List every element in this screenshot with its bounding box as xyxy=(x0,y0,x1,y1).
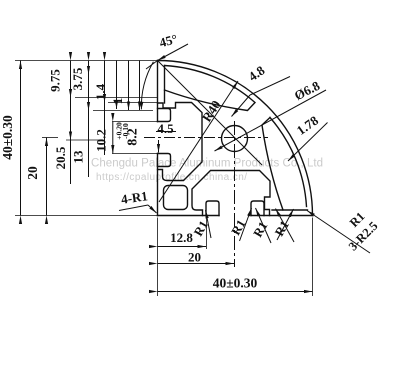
svg-text:13: 13 xyxy=(71,150,86,164)
svg-text:9.75: 9.75 xyxy=(48,69,63,92)
svg-text:https://cpaluprofile.cn.china.: https://cpaluprofile.cn.china.cn/ xyxy=(96,172,247,183)
svg-text:20: 20 xyxy=(188,250,201,265)
svg-text:10.2: 10.2 xyxy=(94,129,109,152)
svg-text:1: 1 xyxy=(110,98,125,105)
svg-text:-0.10: -0.10 xyxy=(121,123,130,139)
svg-text:1.4: 1.4 xyxy=(93,83,108,100)
svg-text:40±0.30: 40±0.30 xyxy=(213,276,258,291)
svg-text:3.75: 3.75 xyxy=(70,67,85,90)
svg-text:4.5: 4.5 xyxy=(157,121,174,136)
svg-text:20: 20 xyxy=(25,166,40,180)
svg-text:Chengdu Palace Aluminum Produc: Chengdu Palace Aluminum Products Co., Lt… xyxy=(91,158,323,170)
svg-text:40±0.30: 40±0.30 xyxy=(0,115,15,160)
svg-text:20.5: 20.5 xyxy=(53,146,68,169)
svg-text:12.8: 12.8 xyxy=(170,230,193,245)
